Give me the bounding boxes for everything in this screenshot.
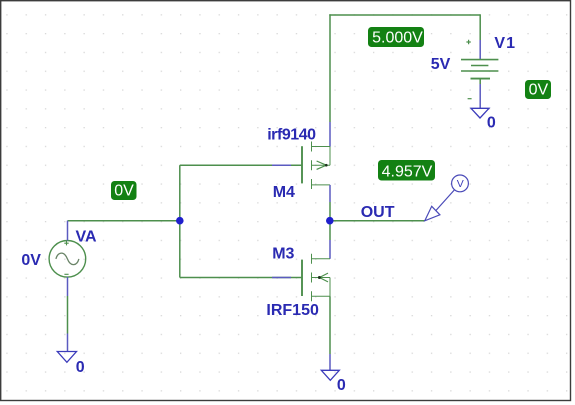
wire VA minus to ground — [67, 277, 69, 351]
M3 bulk arrow tip dot — [318, 276, 321, 279]
label M3 — [272, 246, 294, 263]
label 0 at V1 ground — [487, 115, 496, 132]
svg-text:V: V — [457, 178, 464, 190]
wire M3 source to ground — [329, 296, 331, 370]
bias label 0V at V1 minus — [525, 80, 551, 99]
label V1 — [494, 35, 516, 52]
svg-text:0: 0 — [487, 115, 496, 132]
svg-text:OUT: OUT — [361, 204, 395, 221]
ground 0 at V1 — [471, 108, 489, 118]
wire V1 positive lead vertical — [479, 14, 481, 59]
value 5V — [431, 56, 451, 73]
bias label 4.957V — [378, 160, 435, 181]
wire node OUT to M3 drain — [329, 221, 331, 259]
label IRF150 — [266, 302, 319, 319]
svg-text:M4: M4 — [273, 184, 295, 201]
wire node A to M4 gate — [180, 164, 302, 166]
svg-text:0V: 0V — [114, 183, 134, 200]
label 0 at M3 ground — [337, 377, 346, 394]
voltage source VA — [49, 240, 86, 277]
label 0 at VA ground — [76, 359, 85, 376]
wire M4 drain to node OUT — [329, 185, 331, 221]
svg-text:0V: 0V — [529, 82, 549, 99]
bias label 5.000V — [368, 27, 424, 47]
junction node A — [176, 217, 184, 225]
junction node OUT — [326, 217, 334, 225]
VA sine wave — [56, 253, 79, 264]
label M4 — [273, 184, 295, 201]
value 0V of VA — [21, 252, 41, 269]
wire VDD top horizontal — [329, 14, 480, 16]
wire node A vertical — [179, 165, 181, 277]
svg-text:5V: 5V — [431, 56, 451, 73]
wire M4 drain to VDD vertical — [329, 14, 331, 146]
svg-text:0V: 0V — [21, 252, 41, 269]
svg-text:0: 0 — [76, 359, 85, 376]
bias label 0V at gate node — [111, 181, 137, 200]
svg-text:5.000V: 5.000V — [372, 29, 423, 46]
NMOS M3 — [302, 254, 330, 301]
ground 0 at VA — [57, 352, 76, 363]
svg-text:0: 0 — [337, 377, 346, 394]
wire V1 negative to ground — [479, 79, 481, 109]
wire VA plus pin — [67, 221, 69, 241]
probe V letter — [457, 178, 464, 190]
label OUT — [361, 204, 395, 221]
label irf9140 — [267, 127, 316, 144]
PMOS M4 — [302, 142, 330, 190]
svg-text:VA: VA — [76, 228, 97, 245]
ground 0 at M3 source — [321, 370, 339, 380]
svg-text:M3: M3 — [272, 246, 294, 263]
wire VA to node A — [68, 220, 180, 222]
svg-text:4.957V: 4.957V — [382, 163, 433, 180]
label VA — [76, 228, 97, 245]
voltage probe viewpoint — [425, 175, 469, 221]
M4 bulk arrow tip dot — [325, 164, 328, 167]
svg-text:V1: V1 — [494, 35, 516, 52]
battery V1 — [461, 40, 498, 99]
svg-text:IRF150: IRF150 — [266, 302, 319, 319]
wire node OUT horizontal — [330, 220, 425, 222]
svg-text:irf9140: irf9140 — [267, 127, 316, 144]
wire node A to M3 gate — [180, 277, 302, 279]
